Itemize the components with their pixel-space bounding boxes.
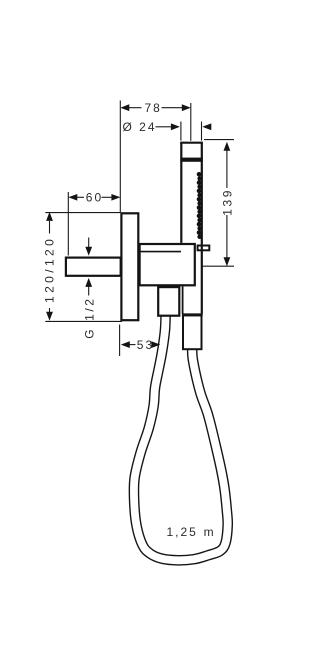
holder inner line xyxy=(140,251,181,253)
hose (1.25 m loop) xyxy=(134,310,228,560)
G 1/2 label arrows xyxy=(88,238,90,296)
wand spray dots xyxy=(197,172,202,239)
wall plate 120/120 (side view) xyxy=(121,213,138,320)
dimension 53 xyxy=(120,325,152,357)
svg-text:53: 53 xyxy=(137,338,154,352)
wand handle lower end xyxy=(183,287,202,314)
G 1/2 connector pipe xyxy=(66,258,121,276)
hand shower wand xyxy=(181,142,203,242)
hose outlet nut A xyxy=(158,287,179,316)
holder lip xyxy=(198,246,210,251)
dimension 139 xyxy=(203,140,235,267)
svg-text:Ø 24: Ø 24 xyxy=(123,120,157,134)
hose cone nut B xyxy=(183,315,202,349)
dimension 78 xyxy=(120,101,191,213)
dimension 120/120 xyxy=(45,213,122,322)
svg-text:120/120: 120/120 xyxy=(43,236,57,303)
svg-text:139: 139 xyxy=(220,188,234,216)
dimension Ø 24 xyxy=(156,122,202,141)
dimension 60 xyxy=(68,192,112,256)
wand cap band xyxy=(180,158,202,162)
svg-text:78: 78 xyxy=(145,101,162,115)
svg-text:1,25: 1,25 xyxy=(167,525,198,539)
holder block xyxy=(140,244,195,285)
svg-text:m: m xyxy=(204,525,216,539)
svg-text:60: 60 xyxy=(86,191,103,205)
svg-text:G 1/2: G 1/2 xyxy=(82,296,96,338)
